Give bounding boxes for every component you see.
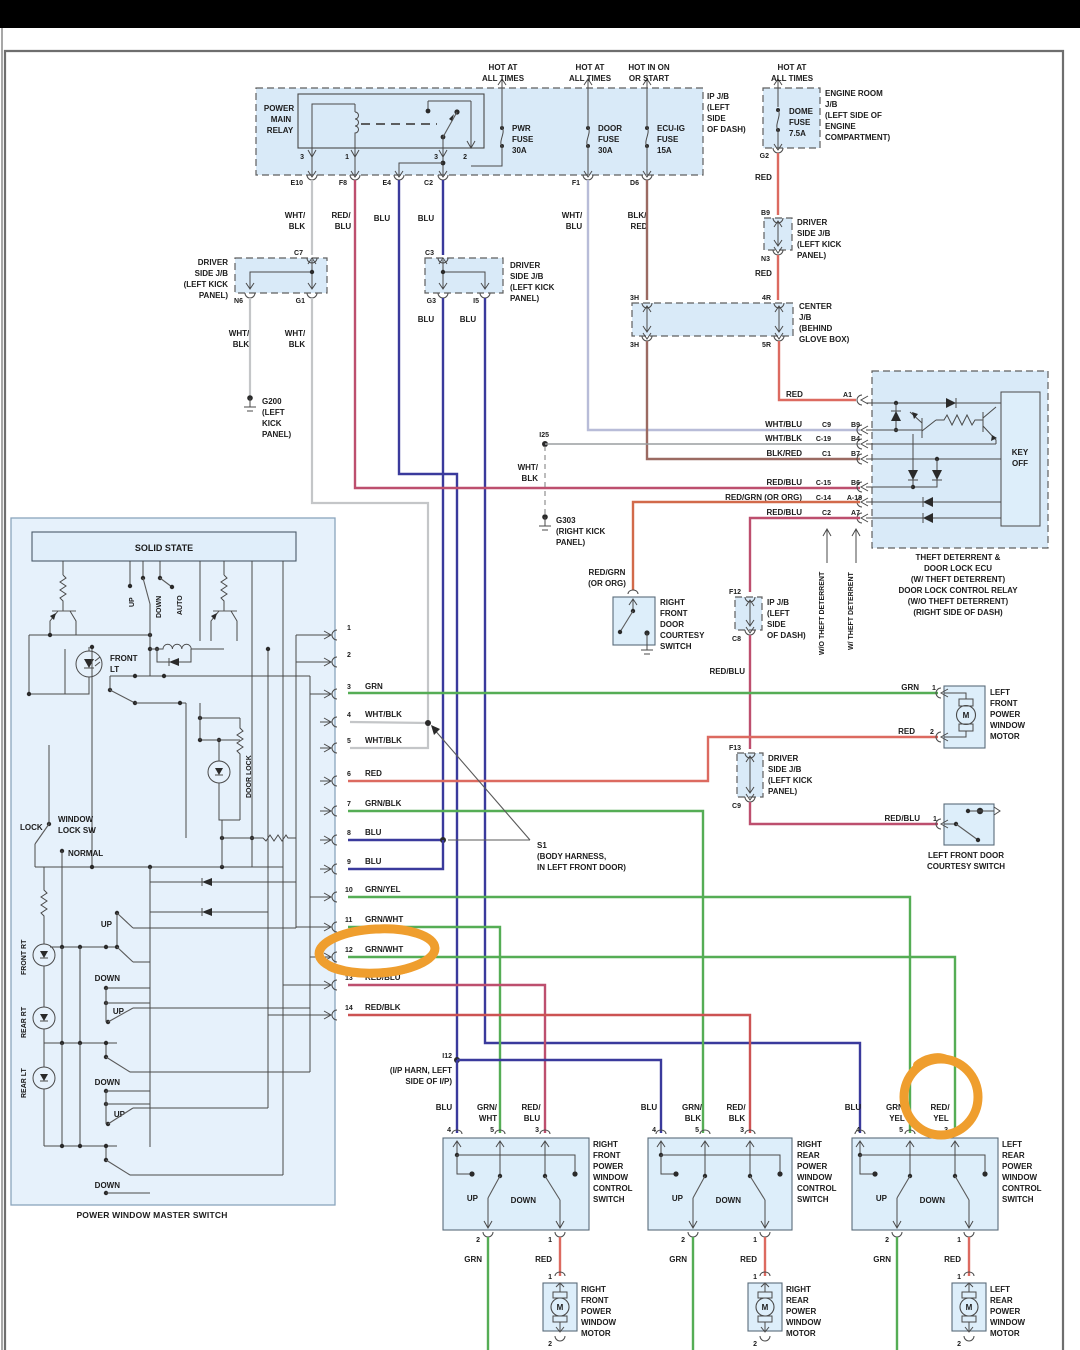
svg-text:POWER: POWER	[786, 1307, 816, 1316]
group3 hub	[44, 1145, 117, 1147]
door fuse wires	[587, 88, 589, 175]
svg-text:DOOR LOCK ECU: DOOR LOCK ECU	[924, 564, 992, 573]
sw1 down arrows	[484, 1198, 492, 1228]
connector F12	[745, 597, 755, 602]
svg-text:KEY: KEY	[1012, 448, 1029, 457]
svg-text:PANEL): PANEL)	[199, 291, 229, 300]
svg-text:POWER: POWER	[990, 710, 1020, 719]
relay pin 3b leg	[442, 137, 444, 175]
svg-text:RED: RED	[786, 390, 803, 399]
top black bar	[0, 0, 1080, 28]
svg-text:8: 8	[347, 830, 351, 837]
svg-text:PANEL): PANEL)	[768, 787, 798, 796]
svg-text:ALL TIMES: ALL TIMES	[482, 74, 525, 83]
wire WHT/BLK I25 to ECU B4	[545, 443, 860, 445]
svg-text:B9: B9	[851, 422, 860, 429]
svg-text:11: 11	[345, 917, 353, 924]
theft deterrent ECU box	[872, 371, 1048, 548]
right rear power window control switch box	[648, 1138, 792, 1230]
wire BLK/RED 3H bottom to ECU B7	[647, 341, 860, 459]
svg-text:B9: B9	[761, 210, 770, 217]
transistor T-left	[52, 610, 76, 612]
svg-text:15A: 15A	[657, 146, 672, 155]
svg-text:BLK/RED: BLK/RED	[766, 449, 802, 458]
connector B4	[857, 439, 868, 449]
sw1 blades	[498, 1174, 502, 1178]
svg-text:C3: C3	[425, 250, 434, 257]
diode leg down x913	[912, 434, 914, 487]
pin 4	[332, 717, 337, 727]
svg-text:(RIGHT SIDE OF DASH): (RIGHT SIDE OF DASH)	[913, 608, 1003, 617]
svg-text:10: 10	[345, 887, 353, 894]
svg-text:(LEFT SIDE OF: (LEFT SIDE OF	[825, 111, 882, 120]
dsjb5 arrow	[746, 756, 754, 793]
svg-text:2: 2	[957, 1341, 961, 1348]
svg-text:ALL TIMES: ALL TIMES	[771, 74, 814, 83]
pin 7	[332, 806, 337, 816]
svg-text:BLU: BLU	[460, 315, 477, 324]
svg-text:FRONT: FRONT	[593, 1151, 621, 1160]
svg-text:(LEFT: (LEFT	[262, 408, 285, 417]
svg-text:PWR: PWR	[512, 124, 531, 133]
svg-text:CONTROL: CONTROL	[1002, 1184, 1042, 1193]
sw3 bus	[858, 1153, 862, 1157]
svg-text:3: 3	[434, 154, 438, 161]
connector 5R bottom	[774, 333, 784, 341]
courtesy1 arrow in	[629, 599, 637, 610]
connector E10	[307, 171, 317, 180]
wire WHT/BLK E10 to C7	[311, 180, 313, 255]
svg-text:DOWN: DOWN	[95, 974, 121, 983]
svg-text:UP: UP	[129, 597, 136, 607]
svg-text:BLU: BLU	[335, 222, 352, 231]
svg-text:RED/BLU: RED/BLU	[766, 478, 802, 487]
row A7 internal	[866, 517, 1001, 519]
svg-text:REAR: REAR	[797, 1151, 820, 1160]
svg-text:2: 2	[463, 154, 467, 161]
svg-text:RED: RED	[755, 269, 772, 278]
svg-text:B7: B7	[851, 451, 860, 458]
sw2 down arrows	[689, 1198, 697, 1228]
wire x150 down	[149, 604, 151, 676]
svg-text:RIGHT: RIGHT	[581, 1285, 606, 1294]
right front power window motor box	[555, 1272, 565, 1276]
svg-text:7: 7	[347, 801, 351, 808]
group1 down blade	[117, 947, 133, 962]
svg-text:MOTOR: MOTOR	[990, 1329, 1020, 1338]
svg-text:1: 1	[345, 154, 349, 161]
svg-text:2: 2	[885, 1237, 889, 1244]
svg-text:I25: I25	[539, 432, 549, 439]
svg-text:RIGHT: RIGHT	[593, 1140, 618, 1149]
svg-text:(I/P HARN, LEFT: (I/P HARN, LEFT	[390, 1066, 452, 1075]
svg-text:RELAY: RELAY	[267, 126, 294, 135]
pin 10	[332, 892, 337, 902]
svg-text:4: 4	[447, 1127, 451, 1134]
ecu-ig fuse wires	[646, 88, 648, 175]
ENGINE ROOM J/B box	[763, 88, 820, 148]
hot in on or start arrow	[643, 79, 651, 88]
door lock resistor	[237, 718, 243, 790]
driver side J/B 5 box	[737, 753, 763, 797]
svg-text:HOT AT: HOT AT	[489, 63, 518, 72]
diode D right row1	[946, 398, 956, 408]
svg-text:FRONT: FRONT	[110, 654, 138, 663]
blade lower	[108, 688, 112, 692]
svg-text:RED: RED	[535, 1255, 552, 1264]
wire GRN sw3 down	[896, 1237, 898, 1350]
wire BLU pin8	[348, 839, 443, 841]
svg-text:SWITCH: SWITCH	[797, 1195, 829, 1204]
connector A1	[857, 395, 868, 405]
svg-text:UP: UP	[101, 920, 113, 929]
svg-text:DOOR: DOOR	[598, 124, 622, 133]
wire GRN sw1 down	[487, 1237, 489, 1350]
svg-text:5: 5	[490, 1127, 494, 1134]
svg-text:WINDOW: WINDOW	[786, 1318, 822, 1327]
svg-text:DOWN: DOWN	[920, 1196, 946, 1205]
wire WHT/BLK branch pin 4	[350, 722, 428, 723]
svg-text:G200: G200	[262, 397, 282, 406]
connector C8	[745, 627, 755, 635]
sw2 bus	[659, 1153, 663, 1157]
svg-text:RED/BLU: RED/BLU	[884, 814, 920, 823]
svg-text:A7: A7	[851, 510, 860, 517]
connector F8	[350, 171, 360, 180]
svg-text:SIDE OF I/P): SIDE OF I/P)	[405, 1077, 452, 1086]
driver side J/B (right col) box	[764, 218, 792, 250]
svg-text:RED/BLU: RED/BLU	[709, 667, 745, 676]
junction dot row4	[935, 457, 939, 461]
svg-text:WINDOW: WINDOW	[593, 1173, 629, 1182]
svg-text:LEFT: LEFT	[990, 688, 1010, 697]
svg-text:OF DASH): OF DASH)	[707, 125, 746, 134]
door lock LED	[208, 761, 230, 783]
svg-text:FRONT: FRONT	[990, 699, 1018, 708]
svg-text:RED: RED	[944, 1255, 961, 1264]
svg-text:SWITCH: SWITCH	[660, 642, 692, 651]
lock wires	[35, 745, 62, 947]
svg-text:IP J/B: IP J/B	[767, 598, 789, 607]
driver side J/B box 2	[425, 258, 503, 293]
relay dashed link	[361, 123, 437, 125]
svg-text:FRONT RT: FRONT RT	[21, 939, 28, 975]
svg-text:F13: F13	[729, 745, 741, 752]
wire RED/BLU pin13 to right front switch	[348, 985, 545, 1133]
relay pin arrow 3b	[439, 150, 447, 157]
wire GRN/WHT pin12 to left rear switch	[348, 957, 955, 1133]
svg-text:2: 2	[681, 1237, 685, 1244]
wire GRN/BLK pin7 to right rear switch	[348, 811, 703, 1133]
sw2 blades	[703, 1174, 707, 1178]
coil diode loop	[157, 649, 191, 662]
svg-text:4: 4	[652, 1127, 656, 1134]
sw2 top connectors	[656, 1130, 666, 1134]
svg-text:SIDE J/B: SIDE J/B	[510, 272, 544, 281]
svg-text:RED: RED	[631, 222, 648, 231]
wire branch to E4	[399, 163, 443, 175]
svg-text:RIGHT: RIGHT	[786, 1285, 811, 1294]
transistor Q1	[921, 418, 923, 438]
svg-text:LEFT: LEFT	[990, 1285, 1010, 1294]
svg-text:ENGINE ROOM: ENGINE ROOM	[825, 89, 883, 98]
svg-text:FUSE: FUSE	[657, 135, 679, 144]
svg-text:(BEHIND: (BEHIND	[799, 324, 833, 333]
door lock wires	[219, 740, 240, 820]
splice I12	[454, 1057, 460, 1063]
connector I5	[480, 293, 490, 298]
svg-text:BLU: BLU	[566, 222, 583, 231]
courtesy1 blade	[631, 609, 635, 613]
svg-text:SWITCH: SWITCH	[593, 1195, 625, 1204]
pin 2	[332, 657, 337, 667]
svg-text:UP: UP	[467, 1194, 479, 1203]
svg-text:RIGHT: RIGHT	[797, 1140, 822, 1149]
svg-text:CENTER: CENTER	[799, 302, 832, 311]
connector B7	[857, 454, 868, 464]
ground G303	[542, 514, 548, 520]
svg-text:WHT/: WHT/	[285, 211, 306, 220]
svg-text:(LEFT KICK: (LEFT KICK	[510, 283, 555, 292]
sw1 bus	[455, 1153, 459, 1157]
courtesy2 internals	[944, 823, 956, 825]
wire BLK/RED D6 to center jb 3H	[646, 180, 648, 300]
svg-text:REAR: REAR	[1002, 1151, 1025, 1160]
svg-text:3: 3	[300, 154, 304, 161]
orange highlighter circle around RED/YEL	[904, 1059, 978, 1135]
svg-text:F8: F8	[339, 180, 347, 187]
svg-text:DOME: DOME	[789, 107, 814, 116]
bus y867	[35, 866, 283, 868]
row B9 internal to transistor	[866, 429, 922, 431]
pin 13	[332, 980, 337, 990]
svg-text:SWITCH: SWITCH	[1002, 1195, 1034, 1204]
svg-text:MOTOR: MOTOR	[990, 732, 1020, 741]
svg-text:POWER: POWER	[797, 1162, 827, 1171]
svg-text:RED/: RED/	[726, 1103, 746, 1112]
svg-text:WHT/: WHT/	[229, 329, 250, 338]
svg-text:1: 1	[957, 1237, 961, 1244]
wire RED pin6 to left front motor	[348, 737, 938, 781]
stub lines from solid state	[63, 561, 283, 641]
right verticals	[252, 588, 310, 1175]
svg-text:5: 5	[695, 1127, 699, 1134]
connector A7	[857, 513, 868, 523]
wire BLU C2 to C3	[442, 180, 444, 255]
power main relay box	[298, 94, 484, 148]
S1 splice leader line	[433, 728, 530, 840]
FRONT LT LED	[76, 651, 102, 677]
svg-text:AUTO: AUTO	[177, 595, 184, 615]
svg-text:BLK: BLK	[522, 474, 539, 483]
svg-text:DRIVER: DRIVER	[510, 261, 540, 270]
diode up leg	[895, 403, 897, 430]
junction dot row1	[894, 401, 898, 405]
pin 12	[332, 952, 337, 962]
svg-text:M: M	[966, 1303, 973, 1312]
resistor to Q2	[936, 415, 983, 425]
svg-text:(OR ORG): (OR ORG)	[588, 579, 626, 588]
svg-text:C7: C7	[294, 250, 303, 257]
svg-text:HOT AT: HOT AT	[778, 63, 807, 72]
svg-text:(W/ THEFT DETERRENT): (W/ THEFT DETERRENT)	[911, 575, 1006, 584]
svg-text:B4: B4	[851, 436, 860, 443]
relay pin 1 leg to F8	[354, 148, 356, 175]
svg-text:BLU: BLU	[641, 1103, 658, 1112]
group3 contact rows	[104, 1089, 108, 1093]
svg-text:M: M	[762, 1303, 769, 1312]
vertical x150 lower	[149, 867, 151, 1147]
svg-text:MOTOR: MOTOR	[581, 1329, 611, 1338]
svg-text:W/ THEFT DETERRENT: W/ THEFT DETERRENT	[848, 572, 855, 650]
relay switch top rail	[428, 101, 471, 148]
svg-text:M: M	[963, 711, 970, 720]
svg-text:FUSE: FUSE	[512, 135, 534, 144]
svg-text:CONTROL: CONTROL	[797, 1184, 837, 1193]
row B7 internal	[866, 458, 1001, 460]
svg-text:1: 1	[548, 1237, 552, 1244]
group3 bottom contact	[104, 1191, 108, 1195]
svg-text:LEFT FRONT DOOR: LEFT FRONT DOOR	[928, 851, 1004, 860]
diode row 882	[150, 881, 296, 883]
orange highlighter circle around pin 12	[318, 926, 436, 976]
REAR LT LED	[43, 1029, 45, 1067]
svg-text:(LEFT KICK: (LEFT KICK	[768, 776, 813, 785]
wire BLU pin9	[348, 840, 443, 869]
driver side J/B box 1	[235, 258, 327, 293]
wire RED sw1 to motor	[559, 1237, 561, 1276]
connector B9	[857, 425, 868, 435]
relay switch pivot dot	[441, 135, 446, 140]
svg-text:GRN/BLK: GRN/BLK	[365, 799, 402, 808]
svg-text:COURTESY: COURTESY	[660, 631, 705, 640]
wire WHT/BLK G1 down and across to master pins 4/5	[312, 298, 428, 748]
svg-text:BLU: BLU	[365, 857, 382, 866]
pin stub arrows	[296, 631, 331, 639]
svg-text:YEL: YEL	[889, 1114, 905, 1123]
svg-text:HOT AT: HOT AT	[576, 63, 605, 72]
svg-text:FUSE: FUSE	[789, 118, 811, 127]
center jb arrow right	[775, 306, 783, 332]
group3 down blade	[104, 1158, 108, 1162]
svg-text:2: 2	[548, 1341, 552, 1348]
svg-text:POWER: POWER	[581, 1307, 611, 1316]
motor1 connector 1	[936, 688, 948, 698]
svg-text:CONTROL: CONTROL	[593, 1184, 633, 1193]
diode left row6	[923, 497, 933, 507]
svg-text:ENGINE: ENGINE	[825, 122, 856, 131]
wire RED engine room to driver side jb	[777, 153, 779, 215]
relay blade arrowhead	[449, 114, 454, 121]
svg-text:BLK: BLK	[729, 1114, 746, 1123]
svg-text:POWER: POWER	[990, 1307, 1020, 1316]
IP J/B box (left side of dash)	[256, 88, 703, 175]
group1 contact row	[104, 986, 108, 990]
sw3 arrows in	[856, 1141, 864, 1155]
wire BLU G3 down to master pin8 junction	[442, 298, 444, 840]
svg-text:OFF: OFF	[1012, 459, 1028, 468]
svg-text:BLU: BLU	[365, 828, 382, 837]
svg-text:YEL: YEL	[933, 1114, 949, 1123]
svg-text:LEFT: LEFT	[1002, 1140, 1022, 1149]
DOOR FUSE 30A	[586, 126, 590, 130]
svg-text:M: M	[557, 1303, 564, 1312]
svg-text:GRN: GRN	[669, 1255, 687, 1264]
bus y676	[110, 675, 310, 677]
harness arrow w/ theft	[852, 529, 860, 563]
connector courtesy1 top	[628, 590, 638, 594]
bus wire y635	[29, 634, 150, 636]
group2 hub	[44, 1042, 117, 1044]
connector B9	[773, 218, 783, 223]
hot at all times arrow 1	[498, 79, 506, 88]
power window master switch box	[11, 518, 335, 1205]
svg-text:PANEL): PANEL)	[262, 430, 292, 439]
svg-text:3: 3	[740, 1127, 744, 1134]
svg-text:UP: UP	[114, 1110, 126, 1119]
svg-text:DOOR LOCK CONTROL RELAY: DOOR LOCK CONTROL RELAY	[898, 586, 1018, 595]
center jb arrow left	[643, 306, 651, 332]
svg-text:DRIVER: DRIVER	[768, 754, 798, 763]
svg-text:SIDE J/B: SIDE J/B	[195, 269, 229, 278]
row B6 internal	[866, 486, 913, 488]
svg-text:7.5A: 7.5A	[789, 129, 806, 138]
svg-text:1: 1	[347, 625, 351, 632]
svg-text:5: 5	[899, 1127, 903, 1134]
svg-text:POWER: POWER	[264, 104, 294, 113]
svg-text:GRN: GRN	[365, 682, 383, 691]
svg-text:RED/BLU: RED/BLU	[766, 508, 802, 517]
wire BLU I12 down to right front switch	[456, 1060, 458, 1133]
svg-text:WINDOW: WINDOW	[58, 815, 94, 824]
right front door courtesy switch box	[613, 597, 655, 645]
svg-text:RED/: RED/	[930, 1103, 950, 1112]
svg-text:SIDE J/B: SIDE J/B	[797, 229, 831, 238]
connector F13	[745, 753, 755, 758]
row A-18 internal	[866, 501, 1001, 503]
svg-text:BLU: BLU	[418, 214, 435, 223]
svg-text:PANEL): PANEL)	[510, 294, 540, 303]
diode row 912	[150, 911, 268, 913]
svg-text:(LEFT: (LEFT	[707, 103, 730, 112]
svg-text:RED: RED	[898, 727, 915, 736]
sw1 arrows in	[453, 1141, 461, 1155]
dashed shield wire I25 to G303	[544, 446, 546, 514]
hot at all times arrow 2	[584, 79, 592, 88]
ipjb2 arrow	[746, 600, 754, 626]
wire RED to center jb	[777, 255, 779, 300]
right rear power window motor box	[760, 1272, 770, 1276]
connector C2	[438, 171, 448, 180]
svg-text:THEFT DETERRENT &: THEFT DETERRENT &	[916, 553, 1001, 562]
svg-text:3: 3	[535, 1127, 539, 1134]
connector C7	[307, 258, 317, 263]
courtesy1 contact	[644, 630, 649, 635]
svg-text:RED: RED	[755, 173, 772, 182]
sw3 blades	[908, 1174, 912, 1178]
right front power window control switch box	[443, 1138, 589, 1230]
junction dot E4 branch	[441, 161, 446, 166]
connector D6	[642, 171, 652, 180]
svg-text:C8: C8	[732, 636, 741, 643]
relay pin arrow 3	[308, 150, 316, 157]
svg-text:2: 2	[347, 652, 351, 659]
svg-text:E10: E10	[291, 180, 304, 187]
solid state box	[32, 532, 296, 561]
svg-text:W/O THEFT DETERRENT: W/O THEFT DETERRENT	[819, 571, 826, 655]
svg-text:J/B: J/B	[825, 100, 838, 109]
LED column resistor	[41, 867, 47, 944]
